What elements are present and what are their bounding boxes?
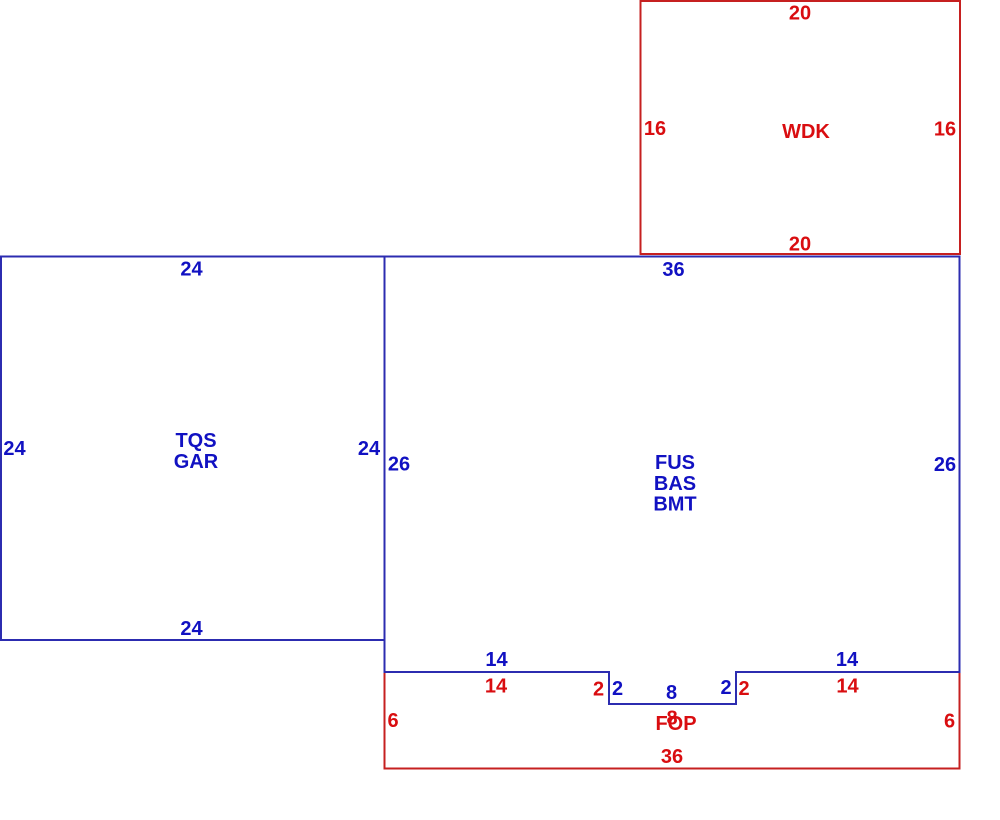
svg-text:BMT: BMT bbox=[653, 494, 696, 516]
svg-text:2: 2 bbox=[720, 677, 731, 699]
svg-text:6: 6 bbox=[944, 711, 955, 733]
svg-text:20: 20 bbox=[789, 3, 811, 25]
svg-text:14: 14 bbox=[836, 676, 859, 698]
svg-text:26: 26 bbox=[934, 454, 956, 476]
svg-text:24: 24 bbox=[358, 438, 381, 460]
room FUS BAS BMT outline (blue, notched bottom) bbox=[385, 257, 960, 705]
svg-text:FOP: FOP bbox=[655, 713, 696, 735]
svg-text:16: 16 bbox=[934, 119, 956, 141]
svg-text:8: 8 bbox=[666, 682, 677, 704]
room FOP outline (red, notched top) bbox=[385, 672, 960, 769]
svg-text:14: 14 bbox=[485, 649, 508, 671]
svg-text:6: 6 bbox=[387, 710, 398, 732]
svg-text:2: 2 bbox=[593, 679, 604, 701]
room TQS GAR outline (blue rectangle) bbox=[1, 257, 385, 641]
svg-text:FUS: FUS bbox=[655, 452, 695, 474]
svg-text:26: 26 bbox=[388, 454, 410, 476]
svg-text:24: 24 bbox=[180, 259, 203, 281]
svg-text:16: 16 bbox=[644, 118, 666, 140]
svg-text:14: 14 bbox=[485, 676, 508, 698]
svg-text:TQS: TQS bbox=[175, 430, 216, 452]
svg-text:WDK: WDK bbox=[782, 121, 830, 143]
svg-text:20: 20 bbox=[789, 234, 811, 256]
room WDK outline (red rectangle) bbox=[641, 1, 961, 254]
svg-text:24: 24 bbox=[3, 438, 26, 460]
svg-text:36: 36 bbox=[662, 259, 684, 281]
svg-text:2: 2 bbox=[612, 678, 623, 700]
svg-text:BAS: BAS bbox=[654, 473, 696, 495]
svg-text:14: 14 bbox=[836, 649, 859, 671]
svg-text:GAR: GAR bbox=[174, 451, 219, 473]
svg-text:24: 24 bbox=[180, 618, 203, 640]
svg-text:36: 36 bbox=[661, 746, 683, 768]
svg-text:2: 2 bbox=[738, 678, 749, 700]
